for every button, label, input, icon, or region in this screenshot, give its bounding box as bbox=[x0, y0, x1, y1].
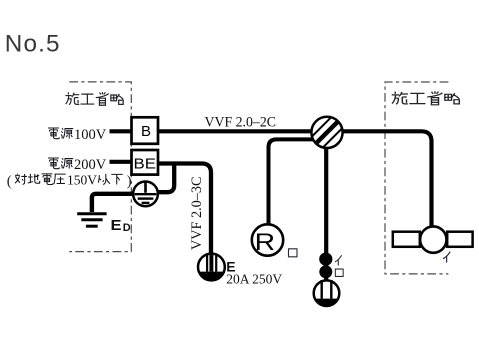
svg-text:20A 250V: 20A 250V bbox=[226, 272, 282, 287]
label 電源200V bbox=[48, 158, 73, 169]
label 施工省略 (right) bbox=[392, 91, 460, 105]
label 施工省略 (left) bbox=[65, 92, 123, 105]
label ロ (switch) bbox=[335, 269, 343, 276]
svg-text:B: B bbox=[141, 123, 151, 140]
earth terminal circle below BE bbox=[133, 181, 158, 207]
wire: earth terminal to ground ED bbox=[92, 194, 133, 212]
breaker BE bbox=[132, 150, 159, 175]
fluorescent light イ bbox=[393, 226, 473, 252]
wire: earth terminal link into 3C run bbox=[158, 163, 174, 192]
wire: BE to outlet VVF2.0-3C run bbox=[158, 164, 211, 255]
svg-text:150V: 150V bbox=[67, 173, 97, 188]
label ro (receptacle) bbox=[289, 249, 298, 257]
svg-text:VVF 2.0–2C: VVF 2.0–2C bbox=[205, 114, 277, 130]
wire: 200V source stub bbox=[110, 160, 134, 164]
lamp receptacle R bbox=[252, 224, 283, 256]
outlet 20A250V with earth bbox=[198, 254, 225, 281]
label イ (fluorescent) bbox=[443, 252, 450, 263]
svg-text:D: D bbox=[123, 222, 131, 234]
wire: 100V source stub bbox=[110, 129, 134, 133]
junction box (outlet box) bbox=[308, 113, 347, 152]
right dashed omission box bbox=[385, 82, 448, 274]
wire: B to junction box bbox=[145, 129, 327, 133]
switch ロ bbox=[319, 265, 332, 278]
wire: junction to fluorescent light bbox=[327, 131, 432, 226]
left dashed omission box bbox=[69, 82, 131, 252]
svg-text:E: E bbox=[111, 218, 122, 234]
breaker B bbox=[132, 117, 159, 144]
svg-text:BE: BE bbox=[134, 156, 157, 172]
svg-text:(: ( bbox=[7, 174, 12, 190]
wire: junction to lamp receptacle bbox=[269, 139, 323, 225]
svg-text:R: R bbox=[255, 229, 276, 256]
outlet below switches bbox=[314, 280, 340, 306]
wire: junction to switches bbox=[324, 140, 328, 281]
ground symbol ED bbox=[77, 214, 106, 227]
label (対地電圧150V以下) bbox=[15, 174, 66, 185]
label 電源100V bbox=[48, 128, 73, 139]
label イ (switch) bbox=[335, 255, 342, 265]
switch イ bbox=[319, 253, 332, 266]
svg-text:100V: 100V bbox=[74, 127, 107, 143]
svg-text:No.5: No.5 bbox=[5, 31, 61, 58]
svg-text:VVF 2.0–3C: VVF 2.0–3C bbox=[189, 177, 205, 250]
svg-text:200V: 200V bbox=[74, 157, 107, 173]
